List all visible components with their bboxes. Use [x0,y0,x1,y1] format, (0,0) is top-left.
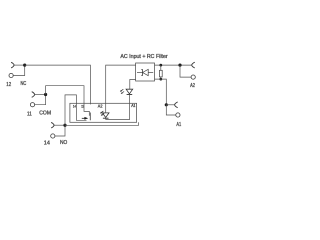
LED D3 lead [105,103,107,119]
wire NO wrap-around below relay to box corner [65,122,139,125]
wire A2 node down to screw [180,65,191,77]
node A1 junction dot [165,103,168,106]
svg-text:11: 11 [81,104,84,109]
svg-text:A1: A1 [131,104,135,108]
wire A1 node to plug [166,104,174,106]
coil A1 branch inside relay [129,103,131,119]
wire bridge box lower pin to A1 riser [155,79,167,105]
coil A2 branch riser [106,65,136,103]
terminal 14 screw circle [51,134,55,138]
wire NC rail y65 to relay pin 12 [25,65,91,103]
contact COM step from pin 11 [84,103,89,116]
node RC bottom junction dot [159,78,162,81]
contact NO path from pin 14 [76,103,86,120]
relay block outline [70,103,137,122]
wire plug11 to node [35,94,46,96]
wire bridge box bottom to status LED [130,80,136,90]
svg-text:12: 12 [6,82,11,89]
svg-text:COM: COM [39,110,51,116]
wire NO rail to relay pin 14 [65,95,76,125]
node 11 junction dot [44,93,47,96]
terminal A1 plug contact [175,102,178,108]
LED D3 inside relay (triangle) [102,113,109,118]
node 14 junction dot [63,124,66,127]
node RC top junction dot [159,64,162,67]
terminal 11 screw circle [30,103,34,107]
status LED D2 emission arrows [121,89,124,93]
wire circle11 up to node [35,95,46,105]
svg-text:A2: A2 [98,103,103,108]
contact moving arm arrow [82,117,85,119]
terminal A2 screw circle [191,75,195,79]
terminal A2 plug contact [192,62,195,68]
terminal 11 plug contact [32,92,35,98]
svg-text:14: 14 [73,104,76,109]
svg-text:A1: A1 [176,121,181,128]
TVS diode inside box: leads [137,72,153,74]
svg-text:14: 14 [44,141,50,147]
wire A2 rail from bridge box to A2 terminal [155,64,192,66]
svg-text:11: 11 [27,111,32,118]
svg-text:NC: NC [21,81,27,88]
node 12 junction dot [23,64,26,67]
bridge rectifier box [136,63,155,81]
terminal 12 screw circle [9,73,13,77]
wire A1 node down to screw [166,105,176,115]
RC resistor leads [160,65,162,79]
node A2 junction dot [178,64,181,67]
LED D3 cathode bar [103,117,109,119]
wire plug14 to node [54,124,65,126]
svg-text:A2: A2 [190,82,195,89]
svg-text:AC Input + RC Filter: AC Input + RC Filter [120,54,167,60]
coil bottom wire [106,119,130,121]
terminal 12 plug contact [11,62,14,68]
wire plug12 to node [14,64,25,66]
wire circle12 up to node [13,65,25,75]
TVS diode zener bar [141,70,142,76]
status LED D2 triangle [126,89,133,94]
terminal A1 screw circle [176,113,180,117]
svg-text:NO: NO [60,140,67,146]
LED D3 emission arrows [101,111,104,115]
contact NC bar [89,113,91,121]
wire circle14 up to node [55,125,65,136]
status LED D2 cathode bar [127,94,133,96]
status LED D2 lead to relay A1 pin [129,95,131,104]
RC filter resistor body [160,70,163,77]
contact NC stub from pin 12 [89,103,91,104]
TVS diode triangle [143,69,149,75]
terminal 14 plug contact [51,122,54,128]
wire COM rail to relay pin 11 [46,86,84,104]
